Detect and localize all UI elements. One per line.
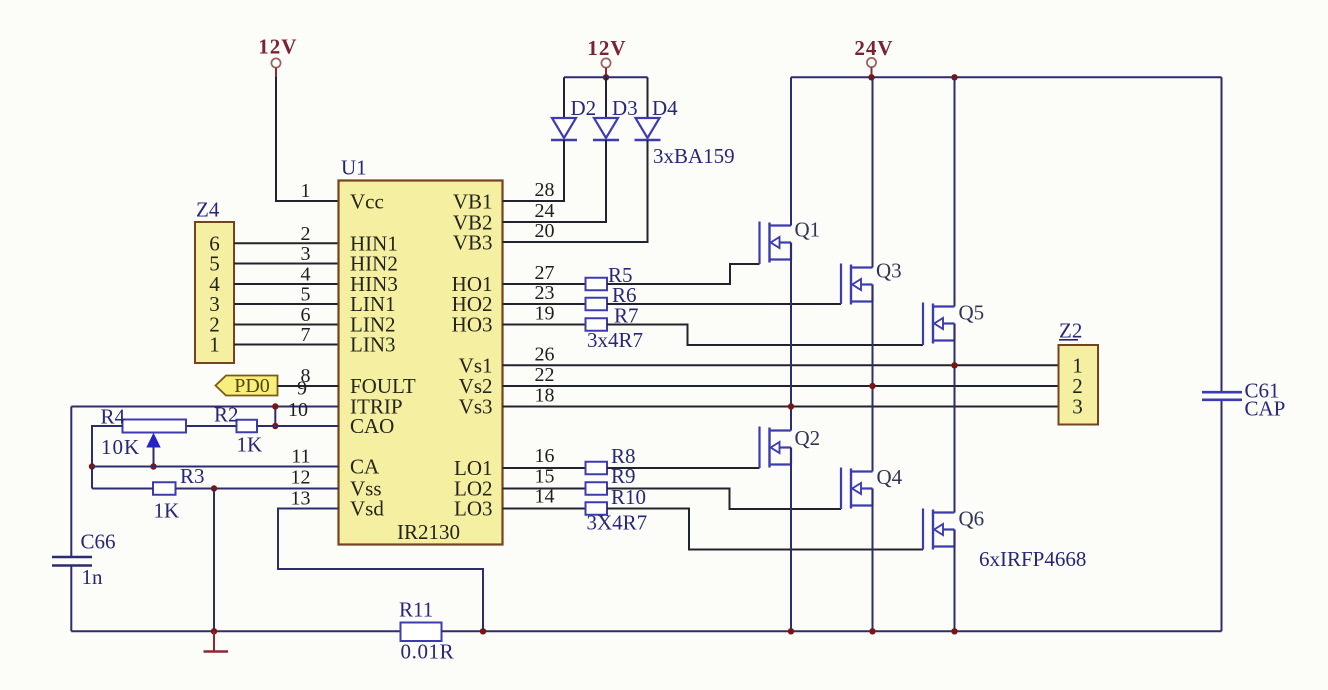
wire R9 to Q4 gate bbox=[607, 489, 841, 510]
diode D4 bbox=[635, 118, 661, 140]
svg-text:26: 26 bbox=[535, 343, 555, 365]
wire LO1 pin16 to R8 bbox=[503, 467, 586, 469]
svg-text:1n: 1n bbox=[82, 565, 104, 589]
wire left rail upper bbox=[70, 407, 72, 557]
svg-text:3X4R7: 3X4R7 bbox=[587, 511, 648, 535]
wire 24V bus to Q5 drain bbox=[954, 77, 956, 306]
wire Vsd pin13 return to shunt bbox=[278, 509, 483, 632]
svg-text:IR2130: IR2130 bbox=[397, 520, 460, 544]
wire left rail lower bbox=[70, 567, 72, 632]
resistor R10 bbox=[586, 502, 608, 515]
net flag PD0 bbox=[216, 375, 278, 397]
capacitor C61 bbox=[1202, 392, 1242, 400]
op-amp U1 IR2130 gate driver IC body bbox=[339, 181, 503, 545]
resistor R9 bbox=[586, 482, 608, 495]
label R5 bbox=[608, 263, 633, 287]
label R9 bbox=[611, 464, 636, 488]
resistor R7 bbox=[586, 318, 608, 331]
label R3 bbox=[180, 464, 205, 488]
svg-text:1K: 1K bbox=[237, 433, 263, 457]
wire Z4.4 to HIN3 pin4 bbox=[234, 283, 339, 285]
value 1n of C66 bbox=[82, 565, 104, 589]
wire bottom rail right of R11 bbox=[442, 630, 1222, 632]
resistor R3 bbox=[153, 482, 176, 495]
wire ground drop bbox=[213, 489, 215, 632]
junction ground at bottom rail bbox=[211, 628, 217, 634]
wire Q2 source to bottom rail bbox=[790, 448, 792, 632]
svg-text:0.01R: 0.01R bbox=[401, 640, 455, 664]
svg-text:5: 5 bbox=[301, 284, 311, 306]
label Q4 bbox=[877, 465, 903, 489]
wire Vs3 pin18 to Z2.3 bbox=[503, 406, 1059, 408]
resistor R11 shunt bbox=[401, 623, 442, 642]
U1 right pin names bbox=[452, 189, 493, 520]
pin number 23 bbox=[535, 282, 555, 304]
svg-text:12V: 12V bbox=[258, 35, 297, 59]
junction Q2 source at bottom rail bbox=[788, 628, 794, 634]
svg-text:1: 1 bbox=[301, 180, 311, 202]
pin number 15 bbox=[535, 466, 555, 488]
wire D3 cathode to VB2 pin24 bbox=[503, 140, 607, 222]
wire bottom rail left of R11 bbox=[71, 630, 400, 632]
label C61 bbox=[1245, 379, 1280, 403]
diode D2 bbox=[551, 118, 577, 140]
svg-text:R11: R11 bbox=[399, 598, 433, 622]
wire R5 to Q1 gate bbox=[607, 264, 760, 284]
pin number 24 bbox=[535, 200, 555, 222]
label Q5 bbox=[959, 301, 985, 325]
wire anode drop D3 bbox=[605, 77, 607, 118]
junction wiper to CA net bbox=[150, 463, 156, 469]
svg-text:15: 15 bbox=[535, 466, 555, 488]
wire HO1 pin27 to R5 bbox=[503, 283, 586, 285]
pin number 3 bbox=[301, 243, 311, 265]
label R2 bbox=[214, 403, 239, 427]
value 1K of R2 bbox=[237, 433, 263, 457]
pin number 28 bbox=[535, 179, 555, 201]
svg-text:Vsd: Vsd bbox=[350, 497, 384, 521]
pin number 7 bbox=[301, 324, 311, 346]
wire HO3 pin19 to R7 bbox=[503, 324, 586, 326]
pin number 6 bbox=[301, 304, 311, 326]
wire Z4.1 to LIN3 pin7 bbox=[234, 344, 339, 346]
svg-text:Q4: Q4 bbox=[877, 465, 903, 489]
junction Q3 source at Vs2 net bbox=[869, 383, 875, 389]
junction 24V at bus bbox=[868, 74, 874, 80]
svg-text:10K: 10K bbox=[101, 435, 140, 459]
wire 24V top bus bbox=[791, 76, 1222, 78]
connector Z4 bbox=[195, 222, 234, 363]
svg-text:CA: CA bbox=[350, 455, 380, 479]
pin number 14 bbox=[535, 486, 555, 508]
wire R3 left lead bbox=[92, 488, 153, 490]
svg-text:R2: R2 bbox=[214, 403, 239, 427]
label Q2 bbox=[795, 426, 821, 450]
svg-text:3x4R7: 3x4R7 bbox=[587, 328, 643, 352]
wire Q6 source to bottom rail bbox=[954, 530, 956, 632]
svg-text:VB3: VB3 bbox=[453, 230, 493, 254]
svg-text:24: 24 bbox=[535, 200, 555, 222]
label Z2 bbox=[1059, 319, 1082, 343]
svg-text:Q1: Q1 bbox=[795, 218, 821, 242]
svg-text:2: 2 bbox=[301, 223, 311, 245]
svg-text:Vcc: Vcc bbox=[350, 189, 384, 213]
pin number 1 bbox=[301, 180, 311, 202]
pin number 5 bbox=[301, 284, 311, 306]
wire R7 to Q5 gate bbox=[607, 325, 923, 346]
wire R6 to Q3 gate bbox=[607, 303, 841, 305]
transistor Q5 bbox=[923, 303, 955, 346]
svg-text:19: 19 bbox=[535, 303, 555, 325]
transistor Q1 bbox=[760, 222, 792, 265]
svg-text:3: 3 bbox=[1072, 395, 1083, 419]
svg-text:6xIRFP4668: 6xIRFP4668 bbox=[979, 547, 1086, 571]
pin number 2 bbox=[301, 223, 311, 245]
resistor R4 potentiometer 10K bbox=[123, 420, 187, 433]
transistor Q4 bbox=[841, 468, 873, 510]
wire Q3 source column to phase B bbox=[872, 285, 874, 472]
wire left branch down to Vss net bbox=[91, 467, 93, 489]
wire ITRIP pin9 to left rail bbox=[71, 406, 338, 408]
pin number 9 bbox=[297, 378, 307, 400]
svg-text:Q2: Q2 bbox=[795, 426, 821, 450]
connector Z2 bbox=[1059, 345, 1099, 425]
svg-text:U1: U1 bbox=[341, 156, 367, 180]
label C66 bbox=[81, 530, 116, 554]
diode D3 bbox=[593, 118, 619, 140]
label IR2130 bbox=[397, 520, 460, 544]
svg-text:Q6: Q6 bbox=[959, 507, 985, 531]
svg-text:10: 10 bbox=[288, 399, 308, 421]
svg-text:HO3: HO3 bbox=[452, 313, 493, 337]
ground symbol bbox=[204, 631, 229, 651]
wire LO3 pin14 to R10 bbox=[503, 508, 586, 510]
wire Z4.6 to HIN1 pin2 bbox=[234, 242, 339, 244]
value 3xBA159 bbox=[653, 144, 735, 168]
pin number 27 bbox=[535, 262, 555, 284]
svg-text:LIN3: LIN3 bbox=[350, 333, 396, 357]
label R10 bbox=[611, 485, 646, 509]
svg-text:LO3: LO3 bbox=[454, 497, 493, 521]
svg-text:Q5: Q5 bbox=[959, 301, 985, 325]
svg-text:4: 4 bbox=[301, 264, 311, 286]
label Q3 bbox=[876, 259, 902, 283]
svg-text:Vs3: Vs3 bbox=[459, 395, 493, 419]
value 3X4R7 lower bank bbox=[587, 511, 648, 535]
value 6xIRFP4668 bbox=[979, 547, 1086, 571]
svg-text:23: 23 bbox=[535, 282, 555, 304]
label Z4 bbox=[196, 198, 220, 222]
transistor Q2 bbox=[760, 427, 792, 469]
power rail 12V (left supply for Vcc) bbox=[258, 35, 297, 78]
junction Q5 column at bus bbox=[951, 74, 957, 80]
label Q6 bbox=[959, 507, 985, 531]
svg-text:16: 16 bbox=[535, 445, 555, 467]
svg-text:14: 14 bbox=[535, 486, 555, 508]
junction 12V at diode bus bbox=[603, 74, 609, 80]
svg-text:Q3: Q3 bbox=[876, 259, 902, 283]
resistor R2 bbox=[237, 420, 258, 433]
label U1 bbox=[341, 156, 367, 180]
svg-text:1: 1 bbox=[209, 333, 220, 357]
label R8 bbox=[611, 444, 636, 468]
wire Vs2 pin22 to Z2.2 bbox=[503, 385, 1059, 387]
wire CA pin11 net bbox=[92, 466, 339, 468]
wire R8 to Q2 gate bbox=[607, 467, 760, 469]
value 0.01R of R11 bbox=[401, 640, 455, 664]
value 10K of R4 bbox=[101, 435, 140, 459]
transistor Q6 bbox=[923, 509, 955, 550]
wire 24V bus to Q3 drain bbox=[872, 77, 874, 267]
junction Q1 source at Vs3 net bbox=[788, 403, 794, 409]
svg-text:PD0: PD0 bbox=[234, 375, 270, 397]
svg-text:1K: 1K bbox=[154, 499, 180, 523]
pin number 13 bbox=[291, 488, 311, 510]
wire Z4.3 to LIN1 pin5 bbox=[234, 303, 339, 305]
wire Z4.5 to HIN2 pin3 bbox=[234, 263, 339, 265]
label R11 bbox=[399, 598, 433, 622]
wire R2 to CAO pin10 bbox=[257, 425, 339, 427]
pin number 8 bbox=[301, 365, 311, 387]
wire 12V to U1 pin1 Vcc bbox=[276, 77, 339, 201]
resistor R6 bbox=[586, 298, 608, 311]
pin number 10 bbox=[288, 399, 308, 421]
resistor R5 bbox=[586, 278, 608, 291]
resistor R8 bbox=[586, 462, 608, 475]
wire D4 cathode to VB3 pin20 bbox=[503, 140, 648, 242]
wire LO2 pin15 to R9 bbox=[503, 488, 586, 490]
junction Q5 source at Vs1 net bbox=[951, 362, 957, 368]
wire R4 to R2 bbox=[186, 425, 237, 427]
wire R4 left lead to left branch bbox=[92, 426, 123, 467]
label D2 bbox=[571, 96, 597, 120]
pin number 22 bbox=[535, 364, 555, 386]
label Q1 bbox=[795, 218, 821, 242]
svg-text:Z4: Z4 bbox=[196, 198, 220, 222]
wire right rail upper bbox=[1221, 77, 1223, 391]
svg-text:22: 22 bbox=[535, 364, 555, 386]
pin number 18 bbox=[535, 385, 555, 407]
value 3x4R7 upper bank bbox=[587, 328, 643, 352]
U1 left pin names bbox=[350, 189, 416, 520]
svg-text:R10: R10 bbox=[611, 485, 646, 509]
svg-text:28: 28 bbox=[535, 179, 555, 201]
wire Q4 source to bottom rail bbox=[872, 489, 874, 632]
wire R10 to Q6 gate bbox=[607, 509, 923, 550]
svg-text:Z2: Z2 bbox=[1059, 319, 1082, 343]
value 1K of R3 bbox=[154, 499, 180, 523]
junction ITRIP jog top bbox=[272, 403, 278, 409]
svg-text:24V: 24V bbox=[854, 36, 893, 60]
label D4 bbox=[652, 96, 678, 120]
svg-text:R4: R4 bbox=[101, 405, 126, 429]
R4 wiper arrow bbox=[146, 433, 160, 467]
wire Vss pin12 to R3 bbox=[176, 488, 339, 490]
pin number 20 bbox=[535, 220, 555, 242]
capacitor C66 bbox=[52, 557, 92, 566]
svg-text:7: 7 bbox=[301, 324, 311, 346]
svg-text:D3: D3 bbox=[612, 96, 638, 120]
svg-text:27: 27 bbox=[535, 262, 555, 284]
svg-text:12V: 12V bbox=[587, 36, 626, 60]
pin number 11 bbox=[291, 446, 310, 468]
svg-text:D4: D4 bbox=[652, 96, 678, 120]
value CAP of C61 bbox=[1245, 397, 1286, 421]
pin number 19 bbox=[535, 303, 555, 325]
svg-text:3xBA159: 3xBA159 bbox=[653, 144, 735, 168]
wire D2 cathode to VB1 pin28 bbox=[503, 140, 565, 201]
wire diode bus bbox=[564, 76, 648, 78]
wire Z4.2 to LIN2 pin6 bbox=[234, 324, 339, 326]
transistor Q3 bbox=[841, 264, 873, 305]
svg-text:CAP: CAP bbox=[1245, 397, 1286, 421]
wire Q1 source column to phase A bbox=[790, 243, 792, 431]
svg-text:R3: R3 bbox=[180, 464, 205, 488]
svg-text:20: 20 bbox=[535, 220, 555, 242]
wire anode drop D4 bbox=[647, 77, 649, 118]
label R7 bbox=[614, 304, 639, 328]
svg-text:6: 6 bbox=[301, 304, 311, 326]
svg-text:CAO: CAO bbox=[350, 414, 394, 438]
svg-text:C66: C66 bbox=[81, 530, 116, 554]
pin number 12 bbox=[291, 467, 311, 489]
junction Q4 source at bottom rail bbox=[869, 628, 875, 634]
power rail 24V bbox=[854, 36, 893, 77]
pin number 26 bbox=[535, 343, 555, 365]
label D3 bbox=[612, 96, 638, 120]
wire Q5 source column to phase C bbox=[954, 324, 956, 513]
wire anode drop D2 bbox=[563, 77, 565, 118]
junction Vsd return at bottom rail bbox=[480, 628, 486, 634]
svg-text:3: 3 bbox=[301, 243, 311, 265]
pin number 4 bbox=[301, 264, 311, 286]
label R4 bbox=[101, 405, 126, 429]
wire jog ITRIP to CAO net bbox=[274, 407, 276, 427]
wire Vs1 pin26 to Z2.1 bbox=[503, 364, 1059, 366]
junction Vss net to ground drop bbox=[211, 485, 217, 491]
wire PD0 to FOULT pin8 bbox=[278, 385, 339, 387]
svg-text:9: 9 bbox=[297, 378, 307, 400]
junction Q6 source at bottom rail bbox=[951, 628, 957, 634]
svg-text:13: 13 bbox=[291, 488, 311, 510]
wire HO2 pin23 to R6 bbox=[503, 303, 586, 305]
svg-text:12: 12 bbox=[291, 467, 311, 489]
wire 24V bus to Q1 drain bbox=[790, 77, 792, 225]
power rail 12V (bootstrap diodes) bbox=[587, 36, 626, 77]
junction ITRIP jog bottom bbox=[272, 423, 278, 429]
svg-text:11: 11 bbox=[291, 446, 310, 468]
junction left branch at CA bbox=[89, 463, 95, 469]
wire right rail lower bbox=[1221, 401, 1223, 631]
pin number 16 bbox=[535, 445, 555, 467]
svg-text:D2: D2 bbox=[571, 96, 597, 120]
label R6 bbox=[612, 283, 637, 307]
svg-text:18: 18 bbox=[535, 385, 555, 407]
